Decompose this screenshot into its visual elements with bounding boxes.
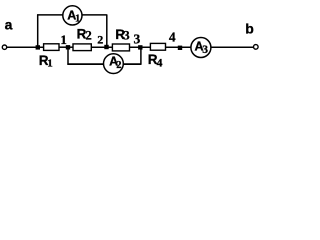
wire bottom-left vertical from node 1	[67, 47, 69, 65]
node 4 junction dot	[178, 46, 182, 50]
node 1 junction dot	[66, 45, 70, 49]
svg-text:1: 1	[60, 32, 67, 47]
svg-text:3: 3	[202, 44, 208, 56]
svg-text:2: 2	[97, 33, 103, 47]
svg-text:3: 3	[134, 31, 141, 46]
svg-text:1: 1	[75, 13, 80, 24]
wire top right horizontal	[82, 14, 107, 16]
node J0 junction dot	[36, 45, 40, 49]
svg-text:2: 2	[116, 60, 121, 71]
ammeter A3	[191, 38, 211, 58]
wire R4 to A3	[166, 46, 191, 48]
wire bottom right horizontal	[123, 63, 141, 65]
resistor R2	[73, 44, 91, 51]
svg-text:2: 2	[86, 29, 92, 43]
wire top left horizontal	[37, 14, 63, 16]
svg-text:4: 4	[169, 29, 176, 44]
node 3 junction dot	[138, 45, 142, 49]
wire bottom-right vertical to node 3	[140, 47, 142, 65]
terminal a	[2, 45, 6, 49]
wire R3 to R4	[130, 46, 151, 48]
wire a to R1	[7, 46, 44, 48]
terminal b	[254, 45, 259, 50]
node 2 junction dot	[104, 45, 108, 49]
wire R2 to R3	[91, 46, 112, 48]
wire A3 to b	[211, 46, 254, 48]
resistor R1	[44, 44, 59, 51]
svg-text:4: 4	[157, 55, 163, 69]
wire top-right vertical to node 2	[106, 14, 108, 47]
svg-text:3: 3	[123, 28, 129, 42]
wire top-left vertical	[37, 14, 39, 47]
svg-text:1: 1	[47, 57, 53, 69]
ammeter A1	[63, 6, 82, 25]
svg-text:b: b	[245, 21, 254, 37]
resistor R3	[112, 44, 129, 51]
svg-text:a: a	[5, 17, 13, 33]
resistor R4	[150, 43, 165, 50]
wire R1 to R2	[59, 46, 73, 48]
wire bottom left horizontal	[67, 63, 103, 65]
ammeter A2	[104, 54, 124, 74]
